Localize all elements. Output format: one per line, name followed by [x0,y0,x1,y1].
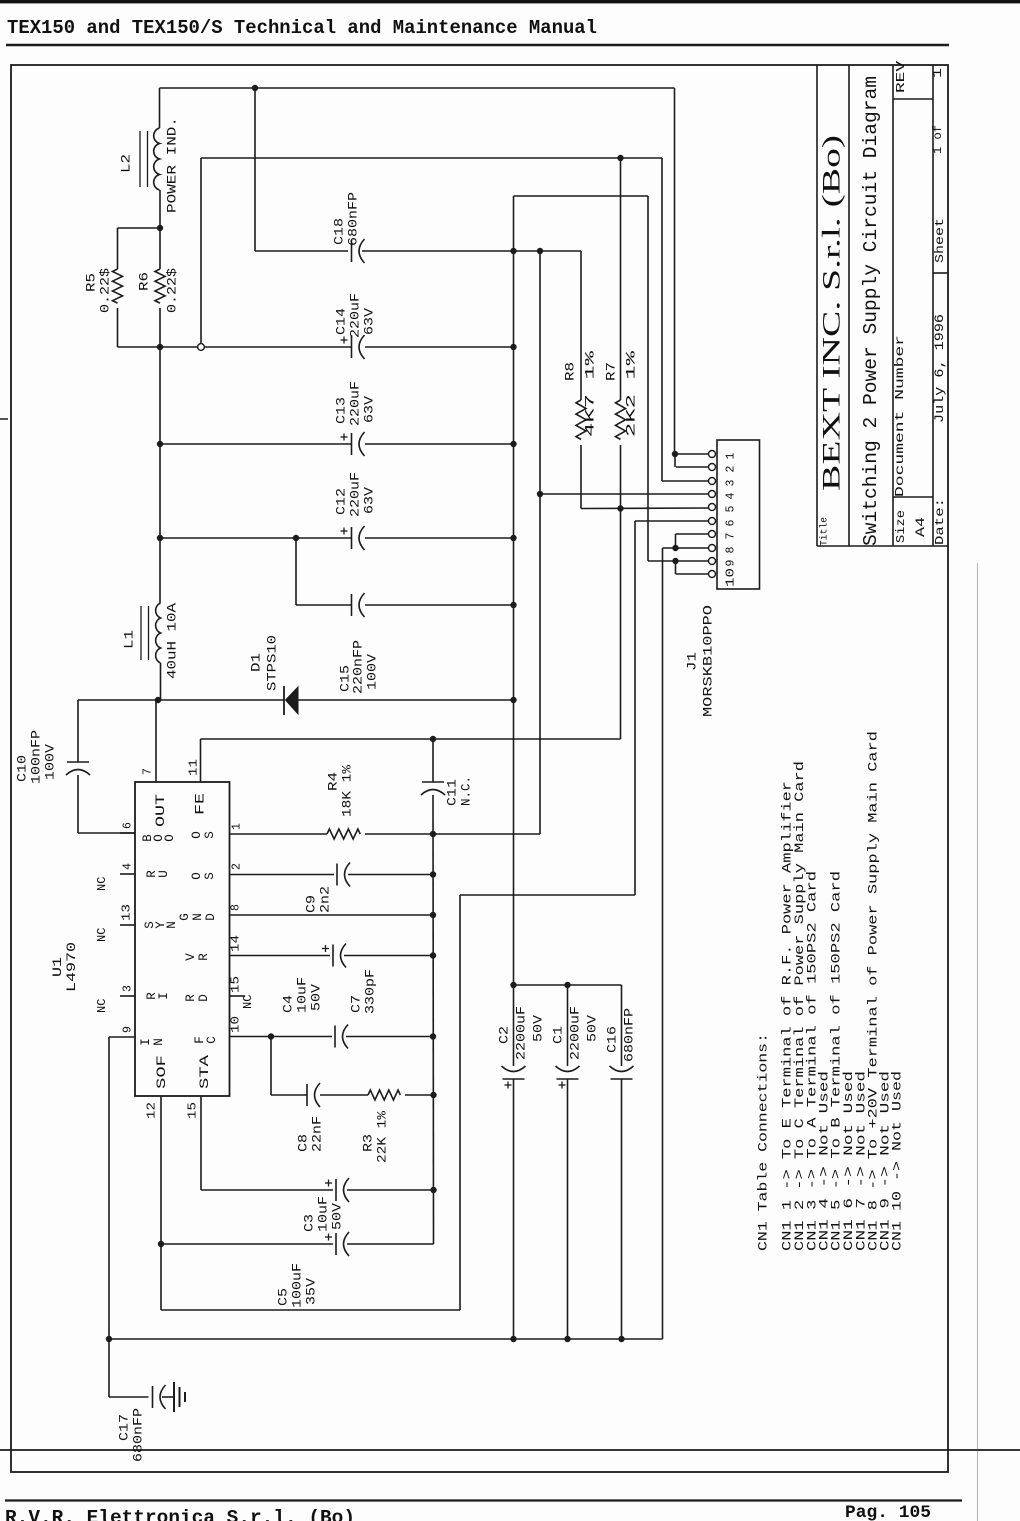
wire C8 row [271,1094,307,1096]
capacitor C7 [334,1026,336,1048]
svg-text:C9: C9 [304,895,319,913]
resistor R8 [580,251,582,400]
svg-text:REV: REV [894,60,908,93]
node bus C16 [618,1336,624,1342]
svg-text:STPS10: STPS10 [265,635,280,691]
node left rail ground bus [106,1336,112,1342]
J1 pin 6 circle [709,518,716,525]
wire switch node row [78,699,284,701]
svg-text:11: 11 [188,759,201,776]
J1 pin 9 circle [709,558,716,565]
node cap row C1 [564,982,570,988]
svg-text:MORSKB10PPO: MORSKB10PPO [701,605,716,717]
wire output cap top row [514,984,622,986]
wire C8 drop [270,1037,272,1096]
svg-text:CN1 Table Connections:: CN1 Table Connections: [756,1033,771,1251]
pin 15 stub [200,1096,202,1190]
capacitor C15 [351,594,353,616]
svg-text:C17: C17 [117,1414,132,1441]
svg-text:4K7 1%: 4K7 1% [583,351,598,437]
svg-text:C7: C7 [349,995,364,1013]
wire pin14 row [230,955,331,957]
header rule [6,44,949,47]
svg-text:R3: R3 [361,1134,376,1152]
wire C10 branch [77,700,79,762]
op-amp U1 regulator box [135,782,230,1096]
svg-text:220uF: 220uF [348,472,363,517]
node C14 row right [510,344,516,350]
node R7 top rail [617,155,623,161]
wire left rail [108,1037,110,1397]
wire FE row [201,738,621,740]
svg-text:3: 3 [122,985,135,992]
wire C16 vertical [621,985,623,1066]
capacitor C17 [152,1386,154,1408]
capacitor C16 [611,1078,633,1080]
svg-text:C4: C4 [281,995,296,1013]
svg-text:63V: 63V [362,396,377,423]
resistor R3 [368,1090,400,1100]
svg-text:I: I [157,992,171,1000]
node cap row C2 [510,982,516,988]
capacitor C2 [503,1078,525,1080]
capacitor C9 [336,864,338,886]
svg-text:4: 4 [725,493,738,500]
wire R5 top link [118,227,161,229]
svg-text:13: 13 [121,904,134,921]
J1 pin 5 circle [709,504,716,511]
svg-text:BEXT INC. S.r.l. (Bo): BEXT INC. S.r.l. (Bo) [819,135,846,491]
svg-text:0.22$: 0.22$ [165,268,180,313]
wire comp drop x540 [539,251,541,834]
node pin8 row [430,912,436,918]
svg-text:C3: C3 [302,1214,317,1232]
svg-text:C13: C13 [334,397,349,424]
wire C18 drop [254,88,256,251]
svg-text:C1: C1 [551,1026,566,1044]
node R6 bottom junction [157,344,163,350]
svg-text:D: D [197,994,211,1002]
wire third link [514,195,649,197]
J1 pin 2 circle [709,464,716,471]
svg-text:100V: 100V [43,744,58,780]
svg-text:Date:: Date: [933,498,947,545]
J1 pin 4 circle [709,491,716,498]
svg-text:10uF: 10uF [295,977,310,1013]
svg-text:C8: C8 [296,1134,311,1152]
svg-text:N: N [191,913,205,921]
svg-text:2n2: 2n2 [318,886,333,913]
wire J1 pin5 [581,507,709,510]
node switch node right [510,697,516,703]
wire pin2 row [230,874,335,876]
svg-text:8: 8 [230,904,243,911]
J1 pin 3 circle [709,478,716,485]
svg-text:NC: NC [95,928,109,942]
svg-text:STA: STA [198,1054,212,1089]
J1 pin 1 circle [709,451,716,458]
wire drop to J1 pin 9 [647,196,649,561]
capacitor C1 [557,1078,579,1080]
svg-text:NC: NC [95,999,109,1013]
page edge faint line [977,563,979,1521]
svg-text:1: 1 [931,68,945,78]
capacitor C14 [351,336,353,358]
wire pin1 row [230,833,328,835]
svg-text:0.22$: 0.22$ [98,268,113,313]
node C15 right [510,602,516,608]
node C12 mid [293,535,299,541]
svg-text:FE: FE [194,793,208,815]
svg-text:C16: C16 [605,1026,620,1053]
node FE row C11 top [430,736,436,742]
node C18 row x513 [510,248,516,254]
svg-text:V: V [184,953,198,961]
node pin10 row left [268,1033,274,1039]
svg-text:220uF: 220uF [348,293,363,338]
wire top rail [160,87,675,89]
wire J1 pin8 [663,547,709,549]
svg-text:OUT: OUT [154,793,168,827]
svg-text:O: O [190,831,204,839]
node bus C1 [564,1336,570,1342]
terminal ring on C14 row [198,344,205,351]
wire J1 pin6 run [460,894,635,896]
svg-text:220uF: 220uF [348,381,363,426]
wire C18 row [255,250,348,252]
svg-text:C10: C10 [15,755,30,782]
svg-text:22nF: 22nF [310,1116,325,1152]
svg-text:U1: U1 [51,957,65,977]
svg-text:15: 15 [230,976,243,993]
svg-text:C12: C12 [334,488,349,515]
resistor R7 [620,158,622,400]
node C13 right [510,441,516,447]
wire main rail mid [159,347,161,603]
node C8 row right [430,1092,436,1098]
node pin1 row C11 [430,831,436,837]
capacitor C4 [332,945,334,967]
svg-text:35V: 35V [304,1278,319,1305]
svg-text:C: C [205,1036,219,1044]
svg-text:50V: 50V [309,984,324,1011]
wire right drop to J1 pins 1-2 [674,88,676,454]
svg-text:1: 1 [725,453,738,460]
svg-text:R8: R8 [563,362,578,381]
wire C1 vertical [567,985,569,1066]
svg-text:Document Number: Document Number [893,335,907,497]
wire J1 pin9 [648,560,709,562]
svg-text:2200uF: 2200uF [568,1006,583,1060]
svg-text:18K 1%: 18K 1% [340,765,355,817]
wire J1 pin3 [662,480,709,482]
pin 12 stub [160,1096,162,1310]
svg-text:2K2 1%: 2K2 1% [624,351,639,437]
capacitor C11 [422,781,444,783]
svg-text:680nFP: 680nFP [131,1408,146,1462]
svg-text:S: S [203,872,217,880]
svg-text:U: U [157,870,171,878]
wire C11 vertical [432,739,434,782]
page top scan bar [0,0,1020,3]
svg-text:O: O [190,872,204,880]
svg-text:G: G [178,913,192,921]
wire pin10 row [230,1036,333,1038]
svg-text:D1: D1 [249,653,264,672]
wire pin8 row [230,914,434,916]
svg-text:10uF: 10uF [316,1196,331,1232]
wire J1 pin6 drop [634,521,636,895]
wire drop rail to J1 pin 3 [661,158,663,481]
svg-text:Size: Size [894,510,908,543]
svg-text:N.C.: N.C. [459,776,474,806]
wire pin12 bottom run [161,1309,460,1311]
svg-text:2200uF: 2200uF [514,1006,529,1060]
svg-text:S: S [203,831,217,839]
svg-text:2: 2 [231,863,244,870]
node J1 pin8 join [672,545,678,551]
svg-text:6: 6 [725,520,738,527]
inductor L1 [156,603,161,663]
svg-text:R: R [184,994,198,1002]
wire J1 pin4 [540,493,709,495]
wire second rail [201,157,662,159]
svg-text:680nFP: 680nFP [346,192,361,246]
svg-text:A4: A4 [914,517,928,537]
svg-text:50V: 50V [330,1203,345,1230]
svg-text:100nFP: 100nFP [29,730,44,784]
svg-text:R7: R7 [604,362,619,381]
node C13 left [157,441,163,447]
node C12 left [157,535,163,541]
node C5 row left [158,1241,164,1247]
svg-text:9: 9 [122,1026,135,1033]
node pin10 row right [430,1033,436,1039]
svg-text:C2: C2 [497,1026,512,1044]
pin 9 stub [109,1036,135,1038]
title block frame lines [816,65,818,546]
node R7 R8 join [617,505,623,511]
svg-text:330pF: 330pF [363,969,378,1014]
svg-text:15: 15 [187,1102,200,1119]
svg-text:July 6, 1996: July 6, 1996 [933,314,947,423]
svg-text:Title: Title [819,517,831,546]
svg-text:TEX150 and TEX150/S Technical: TEX150 and TEX150/S Technical and Mainte… [7,17,597,39]
svg-text:10: 10 [230,1016,243,1033]
capacitor C18 [351,240,353,262]
svg-text:2: 2 [725,466,738,473]
svg-text:D: D [204,913,218,921]
wire pin15 stub [230,995,246,997]
svg-text:1 of: 1 of [931,125,945,154]
svg-text:40uH 10A: 40uH 10A [165,603,180,679]
J1 pin 8 circle [709,545,716,552]
wire C12 row [160,537,352,539]
svg-text:L1: L1 [122,630,137,649]
svg-text:10: 10 [725,568,738,587]
svg-text:22K 1%: 22K 1% [375,1111,390,1163]
wire J1 pin10 [676,573,709,575]
wire ground bus [109,1338,663,1340]
svg-text:Pag. 105: Pag. 105 [845,1503,931,1521]
ground [173,1382,175,1412]
node C3 row right [430,1187,436,1193]
footer rule [5,1499,962,1501]
capacitor C12 [351,527,353,549]
node C18 row x540 [537,248,543,254]
svg-text:C18: C18 [332,218,347,245]
svg-text:Sheet: Sheet [933,218,947,263]
svg-text:50V: 50V [531,1015,546,1042]
svg-text:14: 14 [230,935,243,952]
svg-text:L2: L2 [119,154,134,173]
node C12 right [510,535,516,541]
svg-text:1: 1 [231,823,244,830]
capacitor C13 [351,433,353,455]
svg-text:POWER IND.: POWER IND. [165,117,180,213]
svg-text:50V: 50V [585,1015,600,1042]
svg-text:63V: 63V [362,308,377,335]
pin 3 stub [120,995,135,997]
pin 11 stub [200,739,202,782]
capacitor C3 [335,1179,337,1201]
svg-text:220nFP: 220nFP [351,640,366,694]
inductor L2 [159,88,161,128]
left margin tick [0,418,8,420]
svg-text:5: 5 [725,506,738,513]
pin 4 stub [120,873,135,875]
svg-text:Switching 2 Power Supply Circu: Switching 2 Power Supply Circuit Diagram [860,76,882,546]
svg-text:C11: C11 [445,779,460,806]
svg-text:SOF: SOF [155,1055,169,1089]
wire C15 drop [295,538,297,605]
wire C5 row [161,1243,333,1245]
svg-text:100uF: 100uF [290,1263,305,1308]
svg-text:4: 4 [122,863,135,870]
capacitor C5 [335,1233,337,1255]
wire C14 row [118,346,352,348]
node L2 bottom junction [157,225,163,231]
wire riser x460 [459,895,461,1310]
svg-text:L4970: L4970 [65,942,79,992]
resistor R5 [117,228,119,269]
svg-text:R: R [197,953,211,961]
wire J1 pin1 [675,453,709,455]
wire +20V rail [662,548,664,1339]
svg-text:O: O [163,834,177,842]
pin 13 stub [120,924,135,926]
svg-text:CN1 10 -> Not Used: CN1 10 -> Not Used [890,1071,905,1251]
node pin2 row [430,871,436,877]
wire output rail vertical [513,196,515,1066]
wire sense drop from second rail [200,158,202,344]
capacitor C8 [306,1084,308,1106]
svg-text:3: 3 [725,480,738,487]
diode D1 [283,686,285,715]
node J1 pin9 join [672,558,678,564]
node J1 pin1 [672,451,678,457]
svg-text:7: 7 [142,768,155,775]
svg-text:680nFP: 680nFP [622,1008,637,1062]
svg-text:100V: 100V [365,654,380,690]
J1 pin 10 circle [709,571,716,578]
resistor R4 [327,829,360,839]
svg-text:C5: C5 [276,1288,291,1306]
svg-text:C14: C14 [334,308,349,335]
wire C17 row [109,1396,149,1398]
node pin14 row [430,952,436,958]
svg-text:R6: R6 [137,272,152,291]
wire C3 row [201,1189,333,1191]
node x540 J1 pin4 tap [537,491,543,497]
svg-text:R4: R4 [326,772,341,791]
svg-text:8: 8 [725,547,738,554]
stray scan line [0,1449,1020,1451]
svg-text:J1: J1 [685,652,700,671]
svg-text:9: 9 [725,560,738,567]
svg-text:63V: 63V [362,487,377,514]
wire J1 pin7 [676,533,709,535]
svg-text:N: N [152,1038,166,1046]
svg-text:6: 6 [122,822,135,829]
pin 6 stub [120,832,135,834]
svg-text:I: I [139,1038,153,1046]
svg-text:R.V.R. Elettronica S.r.l. (Bo): R.V.R. Elettronica S.r.l. (Bo) [5,1507,355,1521]
wire C15 row [296,604,352,606]
svg-text:R5: R5 [84,273,99,292]
node L1 bottom [155,697,161,703]
connector J1 box [717,440,760,589]
svg-text:N: N [165,921,179,929]
svg-text:7: 7 [725,533,738,540]
node top rail junction [252,85,258,91]
J1 pin 7 circle [709,531,716,538]
svg-text:12: 12 [146,1102,159,1119]
node bus C2 [510,1336,516,1342]
wire J1 pin6 stub [635,520,709,522]
wire C13 row [160,443,352,445]
capacitor C10 [67,761,89,763]
wire J1 pin2 [676,466,709,468]
pin 7 stub [155,700,157,782]
resistor R6 [159,228,161,269]
svg-text:NC: NC [95,877,109,891]
